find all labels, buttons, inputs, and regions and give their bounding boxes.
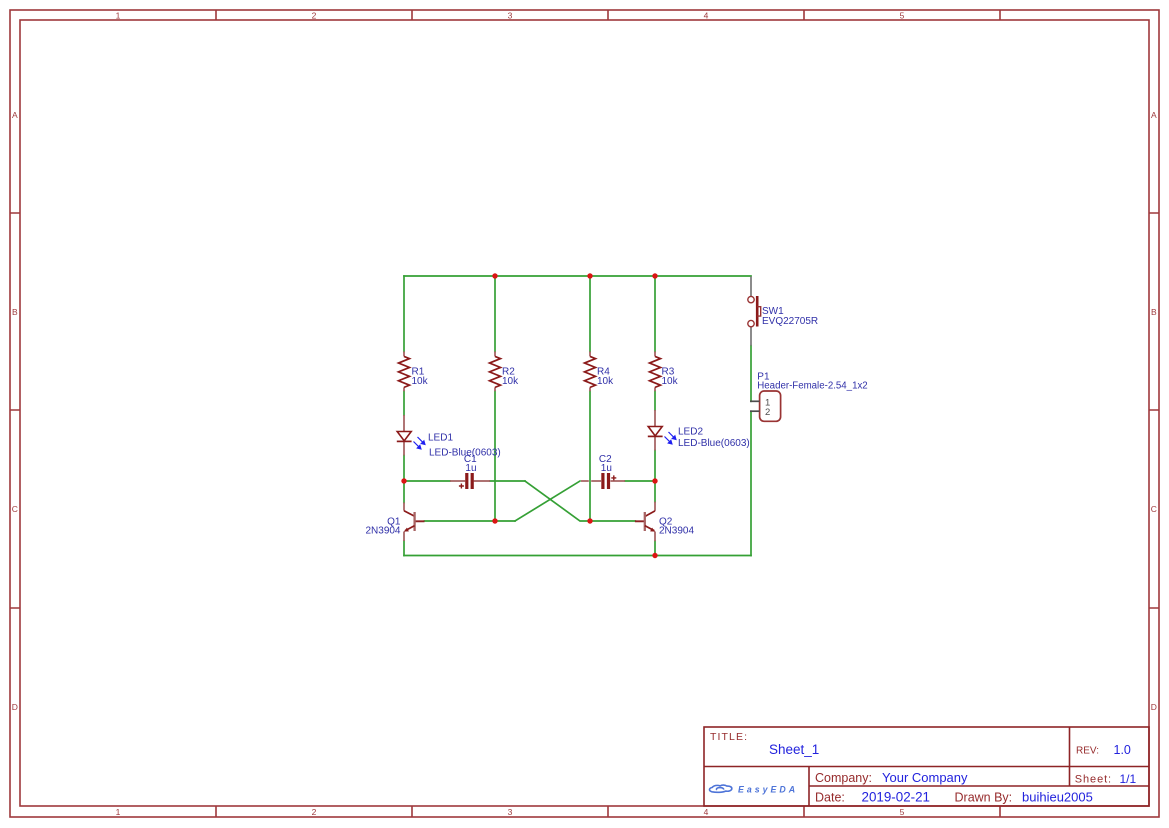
svg-text:2N3904: 2N3904: [659, 526, 694, 537]
svg-text:LED1: LED1: [428, 433, 453, 444]
svg-text:B: B: [12, 307, 18, 317]
svg-text:A: A: [12, 110, 18, 120]
svg-text:2N3904: 2N3904: [365, 526, 400, 537]
svg-text:Sheet:: Sheet:: [1075, 774, 1112, 786]
svg-text:4: 4: [704, 11, 709, 21]
svg-text:C: C: [12, 504, 18, 514]
svg-text:1u: 1u: [465, 463, 476, 474]
svg-text:D: D: [12, 702, 18, 712]
svg-text:10k: 10k: [412, 376, 429, 387]
svg-text:EVQ22705R: EVQ22705R: [762, 316, 818, 327]
svg-text:Company:: Company:: [815, 771, 872, 785]
svg-text:Drawn By:: Drawn By:: [955, 791, 1013, 805]
svg-text:Your Company: Your Company: [882, 770, 968, 785]
svg-text:4: 4: [704, 807, 709, 817]
svg-text:LED2: LED2: [678, 427, 703, 438]
svg-text:C: C: [1151, 504, 1157, 514]
svg-text:1u: 1u: [601, 463, 612, 474]
svg-text:2019-02-21: 2019-02-21: [862, 790, 931, 805]
svg-text:LED-Blue(0603): LED-Blue(0603): [678, 438, 750, 449]
svg-text:Sheet_1: Sheet_1: [769, 742, 819, 757]
svg-text:EasyEDA: EasyEDA: [738, 785, 798, 795]
svg-text:10k: 10k: [662, 376, 679, 387]
svg-text:10k: 10k: [597, 376, 614, 387]
svg-text:REV:: REV:: [1076, 746, 1099, 757]
svg-text:1.0: 1.0: [1114, 743, 1131, 757]
svg-text:2: 2: [765, 407, 770, 418]
svg-text:D: D: [1151, 702, 1157, 712]
svg-text:Date:: Date:: [815, 791, 845, 805]
svg-text:3: 3: [508, 11, 513, 21]
svg-text:5: 5: [900, 807, 905, 817]
svg-text:10k: 10k: [502, 376, 519, 387]
svg-text:2: 2: [312, 807, 317, 817]
svg-text:1: 1: [116, 807, 121, 817]
svg-text:5: 5: [900, 11, 905, 21]
svg-text:1: 1: [116, 11, 121, 21]
svg-text:A: A: [1151, 110, 1157, 120]
svg-text:buihieu2005: buihieu2005: [1022, 790, 1093, 805]
svg-text:2: 2: [312, 11, 317, 21]
svg-text:TITLE:: TITLE:: [710, 731, 748, 743]
svg-text:3: 3: [508, 807, 513, 817]
svg-text:Header-Female-2.54_1x2: Header-Female-2.54_1x2: [757, 380, 867, 391]
svg-text:B: B: [1151, 307, 1157, 317]
svg-text:1/1: 1/1: [1120, 772, 1137, 786]
